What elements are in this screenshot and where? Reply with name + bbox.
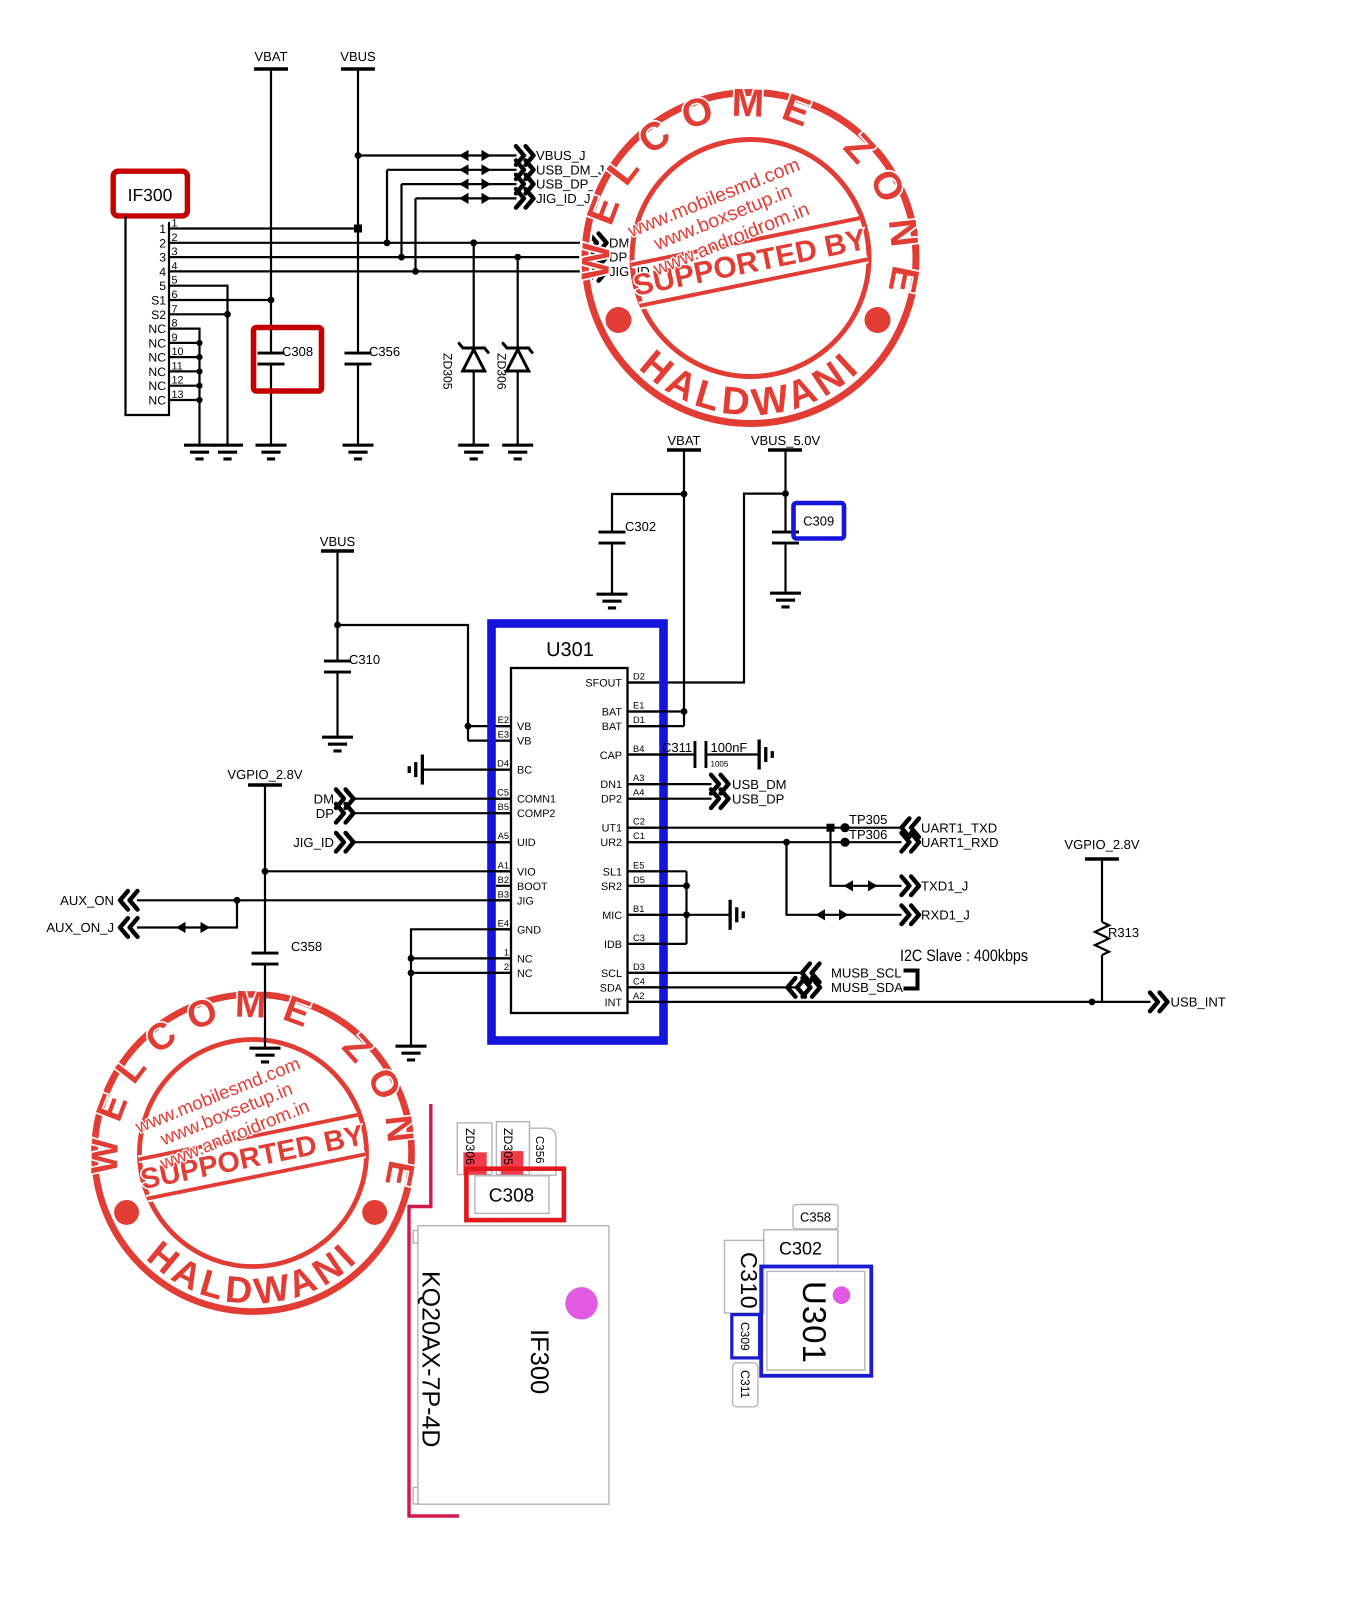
svg-text:A2: A2 (633, 991, 644, 1001)
stamp band SUPPORTED BY (614, 143, 870, 306)
wire SL1 (628, 870, 687, 872)
svg-text:5: 5 (172, 275, 178, 287)
junction NC2 (408, 970, 415, 977)
wire VB branch (338, 625, 469, 741)
svg-text:I2C Slave : 400kbps: I2C Slave : 400kbps (900, 947, 1028, 965)
svg-text:JIG: JIG (517, 895, 534, 907)
C356 package (530, 1128, 557, 1175)
ground right of C311 (758, 740, 774, 770)
svg-text:C309: C309 (738, 1322, 752, 1351)
junction S2/rail (224, 311, 231, 318)
svg-text:D1: D1 (633, 715, 645, 725)
svg-text:MUSB_SDA: MUSB_SDA (831, 980, 903, 995)
svg-text:C310: C310 (736, 1252, 762, 1309)
power flag VBUS_5.0V (751, 433, 821, 450)
power flag VBAT (254, 49, 288, 69)
capacitor C310 (324, 652, 380, 674)
pin 4 wire (JIG_ID) (169, 270, 590, 272)
svg-text:E2: E2 (498, 715, 509, 725)
svg-text:S1: S1 (151, 294, 166, 308)
svg-text:A1: A1 (498, 860, 509, 870)
svg-text:U301: U301 (546, 639, 594, 661)
svg-text:UT1: UT1 (602, 823, 622, 835)
stamp top-right (574, 82, 927, 426)
ground under C356 (343, 444, 374, 461)
svg-text:AUX_ON: AUX_ON (60, 893, 114, 908)
net DM (to COMN1) (314, 789, 511, 808)
stamp bottom-left duplicate (under schematic) (84, 984, 422, 1313)
svg-text:NC: NC (517, 953, 533, 965)
U301 right pin numbers (633, 672, 645, 1001)
resistor R313 (1095, 922, 1139, 955)
net USB_DM (628, 775, 787, 794)
junction VBAT/BAT-E1 (681, 708, 688, 715)
wire GND pin to ground (411, 929, 511, 1046)
svg-text:ZD306: ZD306 (495, 353, 509, 390)
svg-text:NC: NC (517, 968, 533, 980)
ZD305 package (496, 1122, 529, 1175)
svg-text:C310: C310 (349, 652, 380, 667)
ground under C309 (770, 592, 801, 609)
svg-text:DP: DP (316, 806, 334, 821)
svg-text:C308: C308 (282, 344, 313, 359)
svg-text:D4: D4 (497, 759, 509, 769)
svg-text:DN1: DN1 (600, 779, 622, 791)
ground under C308 (256, 444, 287, 461)
svg-text:IDB: IDB (604, 939, 622, 951)
net MUSB_SDA (628, 978, 904, 997)
pin 13 NC wire (169, 399, 200, 401)
net USB_DM_J (387, 161, 604, 243)
testpoint TP305 (840, 812, 887, 832)
svg-text:VBUS: VBUS (320, 534, 356, 549)
stamp right dot (865, 307, 891, 333)
svg-text:E5: E5 (633, 860, 644, 870)
junction AUX_ON/AUX_ON_J (234, 897, 241, 904)
svg-text:SR2: SR2 (601, 881, 622, 893)
svg-text:2: 2 (172, 232, 178, 244)
svg-text:VBUS_J: VBUS_J (536, 148, 586, 163)
pin 2 wire (DM) (169, 242, 590, 244)
IC U301 highlight box (492, 624, 664, 1041)
svg-text:B3: B3 (498, 889, 509, 899)
wire NC 1 (411, 957, 511, 959)
testpoint TP306 (840, 827, 887, 847)
svg-text:C308: C308 (489, 1186, 534, 1207)
pin 7 wire S2 (169, 313, 228, 315)
highlight box C308 (254, 328, 322, 392)
junction VBUS_5.0V/SFOUT (782, 490, 789, 497)
svg-text:C358: C358 (291, 939, 322, 954)
svg-text:D2: D2 (633, 672, 645, 682)
svg-text:11: 11 (172, 360, 183, 372)
U301 package body (767, 1271, 865, 1370)
stamp inner ring (632, 140, 869, 377)
wire R313 to USB_INT (1101, 955, 1103, 1002)
svg-text:C356: C356 (369, 344, 400, 359)
svg-text:UR2: UR2 (600, 837, 622, 849)
ground right of MIC (729, 900, 745, 930)
wire VB E2 (468, 725, 511, 727)
pin 8 NC wire to ground rail (169, 329, 200, 445)
svg-text:IF300: IF300 (128, 185, 173, 205)
svg-text:SL1: SL1 (603, 866, 622, 878)
pin-1 marker dot U301 (833, 1286, 851, 1304)
power flag VGPIO_2.8V (left) (227, 767, 302, 785)
svg-text:C358: C358 (800, 1210, 831, 1225)
svg-text:NC: NC (148, 365, 166, 379)
net MUSB_SCL (628, 964, 902, 983)
wire MIC to ground (628, 914, 729, 916)
IF300 package notch bottom (413, 1488, 418, 1505)
junction VBUS/VBUS_J (355, 152, 362, 159)
svg-text:USB_DM_J: USB_DM_J (536, 162, 604, 177)
wire BAT D1 (628, 725, 685, 727)
net USB_DP (628, 789, 785, 808)
svg-text:4: 4 (172, 260, 178, 272)
svg-text:S2: S2 (151, 308, 166, 322)
U301 left pin numbers (497, 715, 509, 972)
wire C311 to ground (707, 753, 757, 755)
svg-text:KQ20AX-7P-4D: KQ20AX-7P-4D (417, 1271, 445, 1447)
highlight box C308 (layout) (466, 1169, 564, 1220)
svg-text:NC: NC (148, 336, 166, 350)
svg-text:C2: C2 (633, 817, 645, 827)
svg-text:C309: C309 (803, 514, 834, 529)
svg-text:C5: C5 (497, 788, 509, 798)
svg-text:1: 1 (159, 222, 166, 236)
svg-text:SCL: SCL (601, 968, 622, 980)
svg-text:C302: C302 (779, 1239, 822, 1259)
junction MIC (683, 911, 690, 918)
ZD306 package (457, 1123, 492, 1175)
capacitor C308 (258, 344, 314, 366)
svg-text:TP306: TP306 (849, 827, 887, 842)
svg-text:10: 10 (172, 346, 184, 358)
ground under C310 (322, 736, 353, 753)
svg-text:COMP2: COMP2 (517, 808, 555, 820)
svg-text:NC: NC (148, 394, 166, 408)
C308 package (475, 1176, 549, 1214)
svg-text:B1: B1 (633, 904, 644, 914)
svg-text:13: 13 (172, 389, 184, 401)
junction VGPIO/VIO (262, 868, 269, 875)
svg-text:9: 9 (172, 332, 178, 344)
capacitor C358 (252, 939, 323, 966)
svg-text:ZD305: ZD305 (501, 1128, 515, 1165)
svg-text:E4: E4 (498, 918, 509, 928)
net AUX_ON_J (46, 900, 237, 937)
junction SR2 (683, 882, 690, 889)
svg-text:C1: C1 (633, 831, 645, 841)
pin 12 NC wire (169, 385, 200, 387)
svg-text:C356: C356 (533, 1136, 545, 1164)
svg-text:IF300: IF300 (525, 1329, 553, 1394)
wire C356 to ground (357, 364, 359, 445)
ground under C302 (597, 593, 628, 610)
svg-text:D5: D5 (633, 875, 645, 885)
svg-text:VB: VB (517, 736, 531, 748)
C358 package (793, 1205, 838, 1230)
pin 11 NC wire (169, 370, 200, 372)
highlight box C309 (794, 503, 845, 539)
C311 package (733, 1363, 758, 1407)
svg-text:VBAT: VBAT (668, 433, 701, 448)
net JIG_ID_J (416, 189, 591, 271)
svg-text:12: 12 (172, 375, 184, 387)
svg-text:UID: UID (517, 837, 536, 849)
svg-text:E1: E1 (633, 701, 644, 711)
wire NC 2 (411, 972, 511, 974)
wire SR2 (628, 885, 687, 887)
pin 9 NC wire (169, 342, 200, 344)
stamp left dot (606, 307, 632, 333)
C302 package (764, 1230, 838, 1266)
svg-text:A3: A3 (633, 773, 644, 783)
svg-text:TXD1_J: TXD1_J (921, 879, 968, 894)
ground under pin5 rail (212, 444, 243, 461)
junction VBUS/VB branch (334, 622, 341, 629)
net USB_INT (INT) (628, 993, 1226, 1012)
svg-text:DP2: DP2 (601, 794, 622, 806)
svg-text:1: 1 (504, 947, 509, 957)
junction VB (465, 723, 472, 730)
U301 right pin names (585, 678, 622, 1009)
capacitor C302 (599, 519, 657, 545)
power flag VBAT (U301) (667, 433, 701, 450)
wire VIO (265, 870, 511, 872)
svg-text:100nF: 100nF (711, 740, 748, 755)
wire C358 to ground (264, 964, 266, 1048)
connector left pin labels (148, 222, 166, 408)
wire CAP to C311 (628, 753, 696, 755)
svg-text:NC: NC (148, 322, 166, 336)
connector IF300 reference box (113, 171, 187, 216)
highlight box U301 (layout) (761, 1267, 871, 1376)
wire VBAT down to BAT pins (683, 450, 685, 726)
svg-text:NC: NC (148, 351, 166, 365)
wire VBUS down to C310 (336, 551, 338, 661)
svg-text:3: 3 (159, 251, 166, 265)
svg-text:SFOUT: SFOUT (585, 678, 622, 690)
svg-text:USB_DP: USB_DP (732, 791, 785, 806)
net JIG_ID (to UID) (293, 833, 511, 852)
svg-text:NC: NC (148, 379, 166, 393)
wire BAT E1 (628, 710, 685, 712)
svg-text:GND: GND (517, 924, 541, 936)
pin 10 NC wire (169, 356, 200, 358)
svg-text:8: 8 (172, 318, 178, 330)
ground under C358 (250, 1047, 281, 1064)
junction pin2/USB_DM_J (384, 239, 391, 246)
svg-text:D3: D3 (633, 962, 645, 972)
svg-text:C311: C311 (738, 1370, 752, 1399)
U301 right pin stubs (628, 683, 659, 1002)
wire C308 to ground (270, 364, 272, 445)
capacitor C311 100nF (662, 740, 747, 769)
svg-text:E3: E3 (498, 730, 509, 740)
svg-text:C3: C3 (633, 933, 645, 943)
pin-1 marker dot IF300 (565, 1287, 597, 1319)
junction VBAT/C302 (681, 491, 688, 498)
svg-text:HALDWANI: HALDWANI (632, 342, 869, 425)
svg-text:CAP: CAP (600, 750, 622, 762)
wire VBAT vertical to C308 (270, 69, 272, 353)
svg-text:VIO: VIO (517, 866, 536, 878)
junction pin4/JIG_ID_J (412, 268, 419, 275)
svg-text:A4: A4 (633, 788, 644, 798)
ground left of BC (408, 755, 424, 785)
wire C310 to ground (336, 672, 338, 737)
wire VGPIO down to C358 (264, 785, 266, 953)
svg-text:COMN1: COMN1 (517, 794, 556, 806)
svg-text:BAT: BAT (602, 721, 623, 733)
svg-text:1005: 1005 (711, 760, 729, 769)
wire VBUS vertical to C356 (357, 69, 359, 353)
pin 5 wire to ground rail (169, 286, 228, 445)
svg-text:6: 6 (172, 289, 178, 301)
svg-text:1: 1 (172, 218, 178, 230)
svg-text:B2: B2 (498, 875, 509, 885)
net RXD1_J (787, 842, 970, 924)
svg-text:A5: A5 (498, 831, 509, 841)
svg-text:UART1_RXD: UART1_RXD (921, 835, 999, 850)
junction pin3/USB_DP_J (398, 254, 405, 261)
svg-text:5: 5 (159, 279, 166, 293)
junction S1-VBAT (268, 297, 275, 304)
net DP (to COMP2) (316, 804, 511, 823)
zener diode ZD306 (495, 257, 533, 445)
svg-text:ZD305: ZD305 (441, 353, 455, 390)
net JIG_ID arrow (589, 262, 650, 281)
capacitor C309 (772, 531, 799, 545)
svg-text:B4: B4 (633, 744, 644, 754)
pin 6 wire S1 to VBAT (169, 299, 271, 301)
wire C309 to ground (784, 543, 786, 593)
svg-text:DM: DM (314, 791, 334, 806)
svg-text:C4: C4 (633, 976, 645, 986)
net UART1_TXD (UT1) (628, 818, 998, 837)
pin 1 wire (169, 227, 358, 229)
wire VBUS_5.0V down to C309 (784, 450, 786, 532)
svg-text:7: 7 (172, 303, 178, 315)
svg-text:B5: B5 (498, 802, 509, 812)
stamp outer ring (585, 93, 916, 424)
ground under ZD305 (458, 444, 489, 461)
I2C pull-up bracket (904, 971, 918, 989)
svg-text:TP305: TP305 (849, 812, 887, 827)
svg-text:2: 2 (504, 962, 509, 972)
power flag VBUS (340, 49, 376, 69)
svg-text:4: 4 (159, 265, 166, 279)
C310 package (725, 1240, 764, 1313)
capacitor C356 (345, 344, 401, 366)
wire SFOUT branch to VBUS_5.0V (628, 494, 786, 683)
svg-text:MUSB_SCL: MUSB_SCL (831, 966, 902, 981)
net TXD1_J (831, 828, 969, 895)
power flag VBUS (C310) (320, 534, 356, 551)
svg-text:BOOT: BOOT (517, 881, 548, 893)
svg-text:RXD1_J: RXD1_J (921, 908, 970, 923)
IF300 package body (418, 1226, 609, 1505)
net DP arrow (589, 248, 627, 267)
power flag VGPIO_2.8V (right) (1064, 837, 1139, 859)
net AUX_ON / JIG wire (60, 891, 511, 910)
zener diode ZD305 (441, 243, 489, 445)
svg-text:USB_INT: USB_INT (1171, 995, 1226, 1010)
connector IF300 body (126, 217, 170, 416)
svg-text:2: 2 (159, 236, 166, 250)
ground under NC rail (184, 444, 215, 461)
ground under GND rail (396, 1045, 427, 1062)
IF300 package notch top (413, 1230, 418, 1243)
wire C302 branch (612, 494, 684, 532)
svg-text:AUX_ON_J: AUX_ON_J (46, 920, 114, 935)
junction NC1 (408, 955, 415, 962)
svg-text:VGPIO_2.8V: VGPIO_2.8V (1064, 837, 1139, 852)
net UART1_RXD (UR2) (628, 833, 999, 852)
ground under ZD306 (502, 444, 533, 461)
svg-text:C311: C311 (662, 740, 692, 755)
svg-text:VBUS: VBUS (340, 49, 376, 64)
wire VB E3 (468, 739, 511, 741)
svg-text:VBUS_5.0V: VBUS_5.0V (751, 433, 821, 448)
wire C302 to ground (611, 543, 613, 594)
svg-text:BC: BC (517, 765, 532, 777)
svg-text:R313: R313 (1108, 925, 1139, 940)
pin 3 wire (DP) (169, 256, 590, 258)
svg-text:JIG_ID_J: JIG_ID_J (536, 191, 591, 206)
U301 left pin stubs (496, 726, 511, 973)
U301 left pin names (517, 721, 556, 980)
wire SL1/SR2/MIC/IDB tie rail (685, 871, 687, 944)
svg-text:C302: C302 (625, 519, 656, 534)
junction pin3/ZD306 (514, 254, 521, 261)
svg-text:JIG_ID: JIG_ID (293, 835, 334, 850)
svg-text:BAT: BAT (602, 707, 623, 719)
wire VGPIO to R313 (1101, 859, 1103, 922)
connector pin numbers 1-13 (172, 218, 184, 402)
svg-text:VB: VB (517, 721, 531, 733)
PCB connector outline KQ20AX (409, 1104, 459, 1516)
svg-text:UART1_TXD: UART1_TXD (921, 820, 997, 835)
svg-text:ZD306: ZD306 (463, 1128, 477, 1165)
svg-text:SDA: SDA (600, 982, 623, 994)
svg-text:VBAT: VBAT (255, 49, 288, 64)
IC U301 body (511, 668, 628, 1013)
svg-text:VGPIO_2.8V: VGPIO_2.8V (227, 767, 302, 782)
wire BC to ground (424, 768, 511, 770)
svg-text:U301: U301 (796, 1281, 833, 1364)
net VBUS_J (358, 146, 586, 165)
net DM arrow (589, 234, 629, 253)
svg-text:INT: INT (605, 997, 623, 1009)
net USB_DP_J (402, 175, 603, 257)
svg-text:MIC: MIC (602, 910, 622, 922)
junction VBUS/pin1 (354, 225, 362, 233)
C309 package highlighted (732, 1315, 760, 1358)
svg-text:USB_DM: USB_DM (732, 777, 787, 792)
wire IDB (628, 943, 687, 945)
junction pin2/ZD305 (470, 239, 477, 246)
svg-text:3: 3 (172, 246, 178, 258)
